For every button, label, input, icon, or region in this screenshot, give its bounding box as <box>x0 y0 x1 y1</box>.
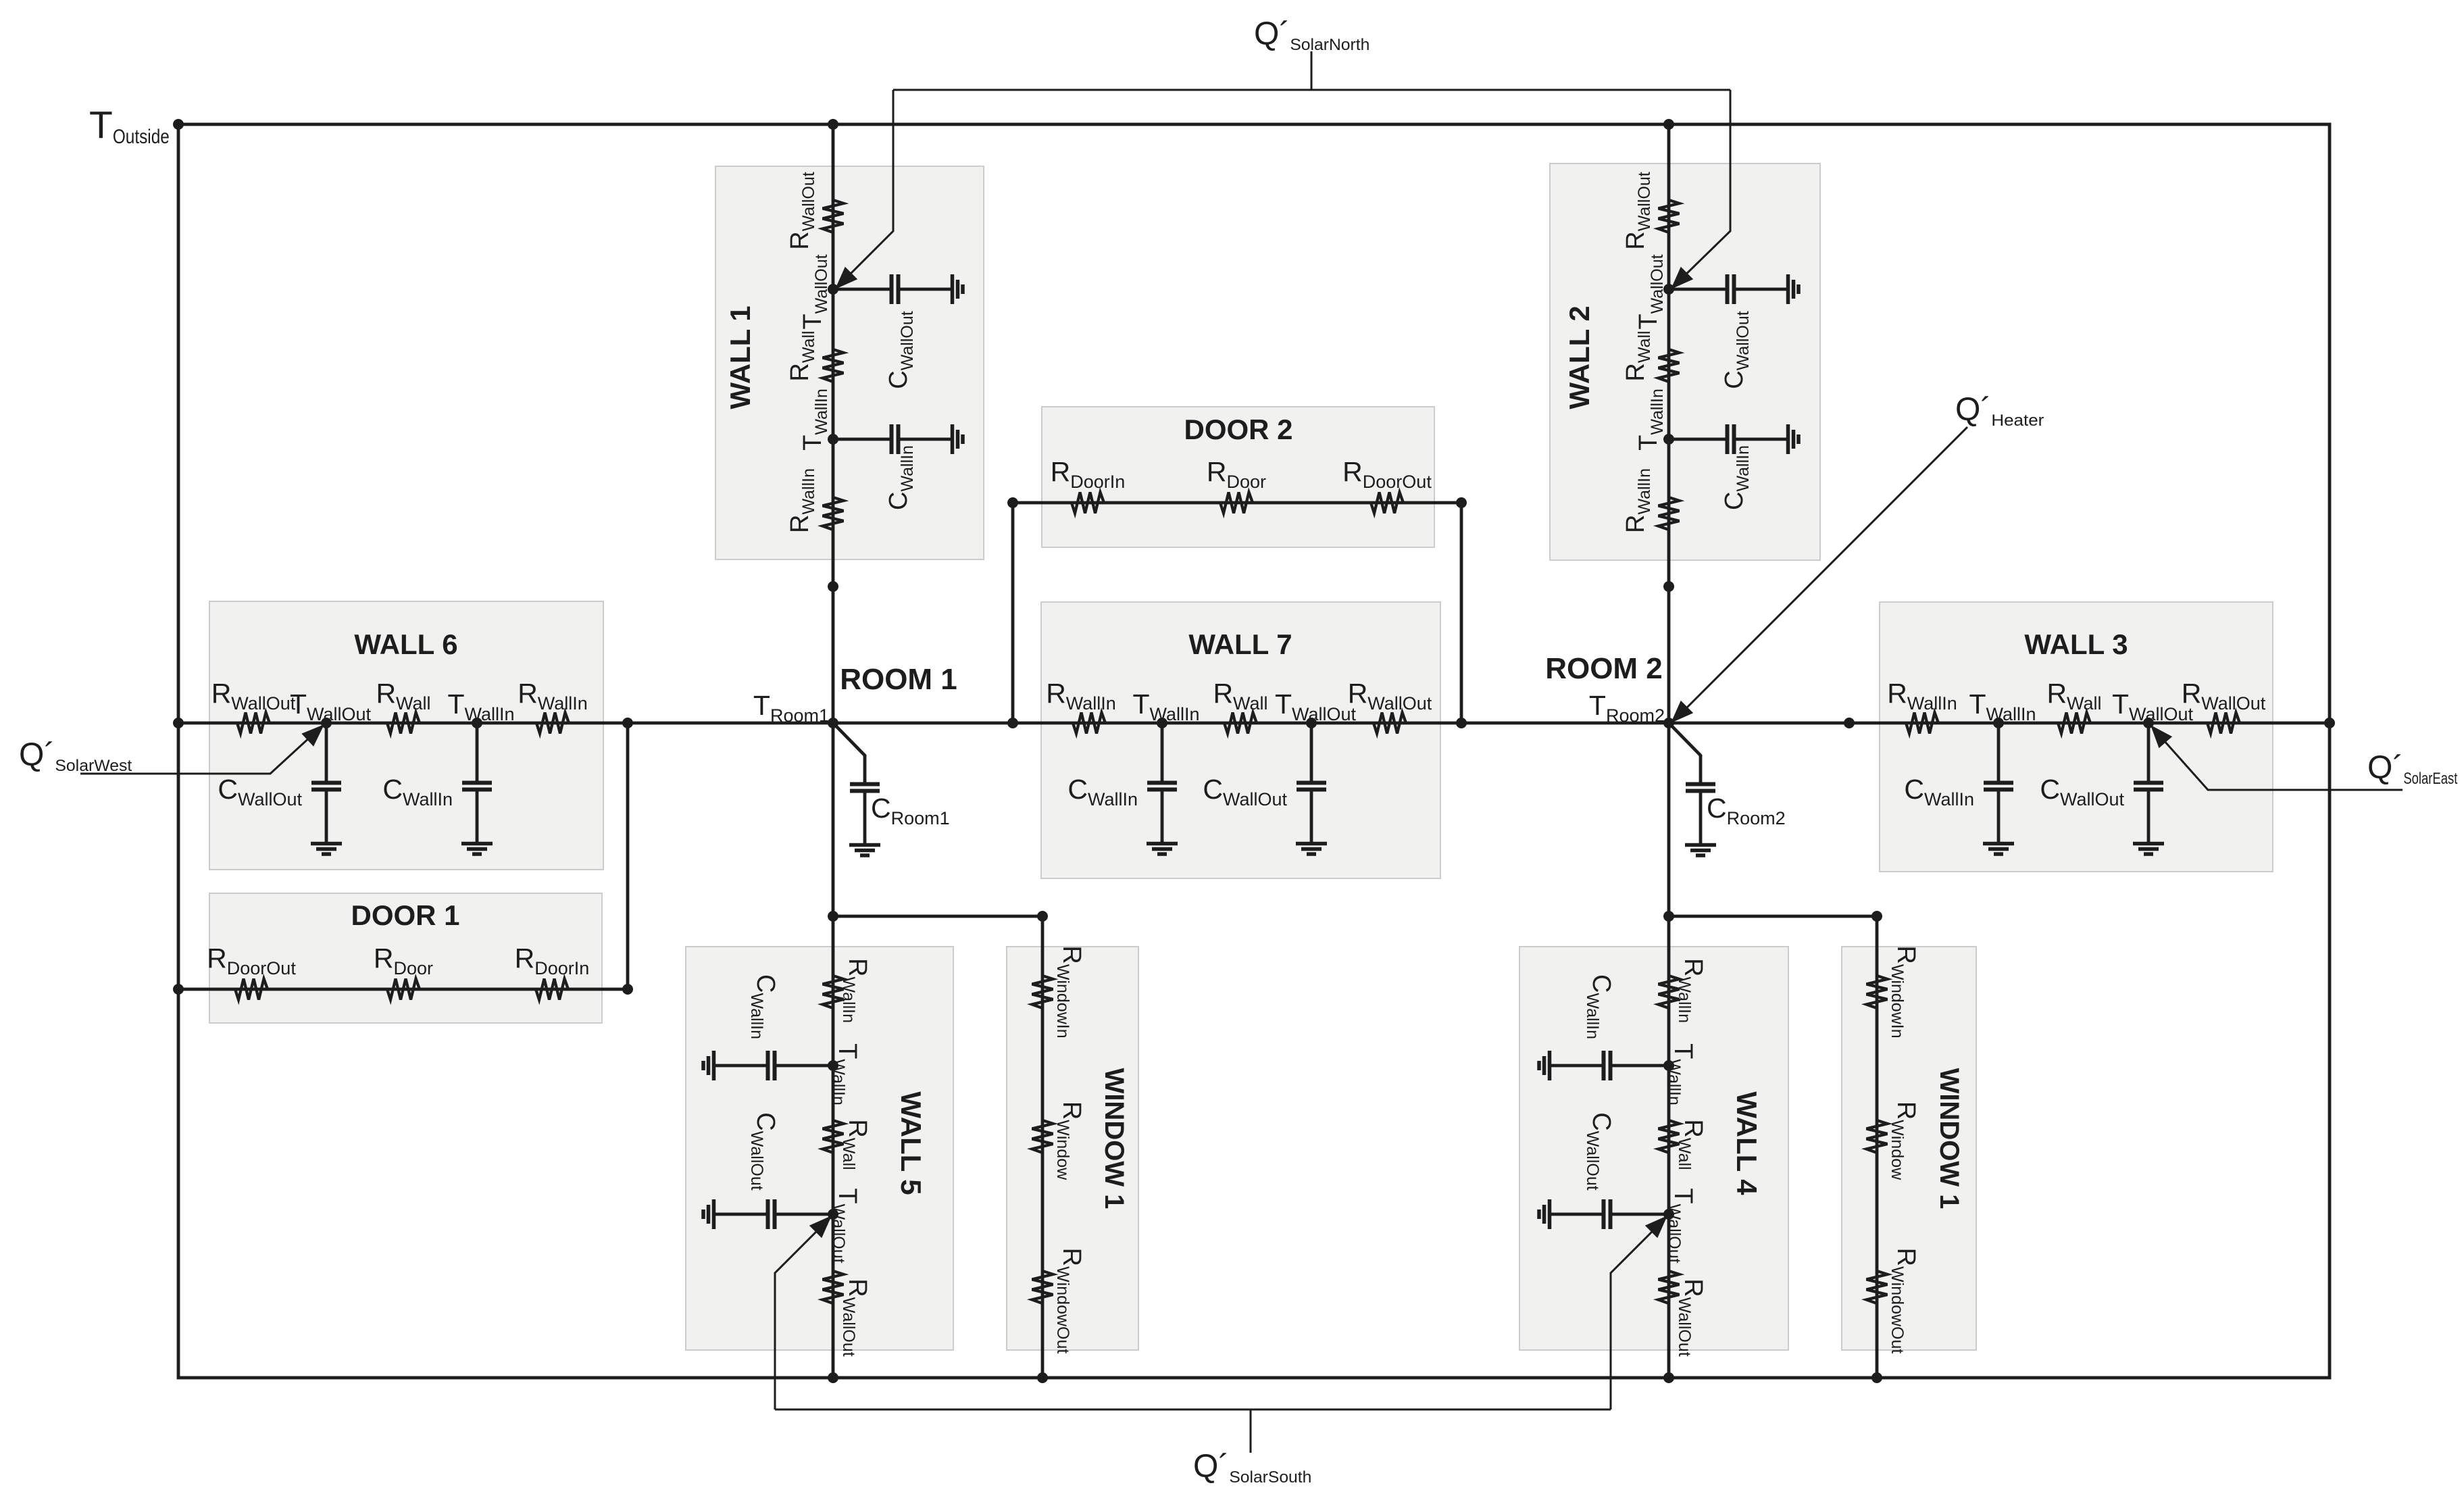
resistor R_DoorIn (Door2) <box>1072 493 1104 514</box>
resistor R_Wall (Wall5) <box>823 1120 844 1153</box>
svg-text:WINDOW 1: WINDOW 1 <box>1099 1068 1129 1209</box>
node junction Door1 right end <box>622 984 633 995</box>
box DOOR 2 <box>1042 407 1434 547</box>
svg-text:DOOR 2: DOOR 2 <box>1184 414 1292 445</box>
box WALL 4 <box>1519 947 1788 1350</box>
capacitor C_WallOut (Wall2) with ground <box>1669 288 1726 291</box>
svg-text:DOOR 1: DOOR 1 <box>351 899 459 931</box>
svg-text:WALL 3: WALL 3 <box>2024 628 2128 660</box>
resistor R_WallOut (Wall2) <box>1659 200 1680 232</box>
wire: Door2 loop <box>1013 503 1461 723</box>
capacitor C_WallIn (Wall5) with ground <box>776 1064 833 1068</box>
wire: window link right <box>1669 916 1877 919</box>
box DOOR 1 <box>209 893 602 1023</box>
node junction Window1-left bottom rail <box>1037 1372 1048 1383</box>
svg-text:WALL 7: WALL 7 <box>1188 628 1292 660</box>
arrow: Q_SolarSouth into T_WallOut Wall4 <box>1645 1216 1667 1238</box>
node T_WallIn (Wall1) <box>828 434 838 445</box>
node dot on top rail at Wall1 <box>828 119 838 130</box>
box WALL 2 <box>1550 164 1820 560</box>
capacitor C_WallIn (Wall4) with ground <box>1612 1064 1669 1068</box>
capacitor C_WallOut (Wall6) with ground <box>325 723 328 781</box>
wire: Q_SolarSouth label stub <box>1250 1409 1252 1453</box>
resistor R_Wall (Wall6) <box>387 713 420 734</box>
capacitor C_WallIn (Wall7) with ground <box>1161 723 1164 781</box>
node T_WallOut (Wall7) <box>1306 718 1317 728</box>
box WINDOW 1 left <box>1007 947 1138 1350</box>
svg-text:WALL 2: WALL 2 <box>1563 305 1595 409</box>
node T_WallIn (Wall6) <box>472 718 482 728</box>
node T_WallIn (Wall3) <box>1993 718 2004 728</box>
resistor R_WallOut (Wall4) <box>1659 1271 1680 1303</box>
node T_WallOut (Wall3) <box>2143 718 2154 728</box>
resistor R_WallOut (Wall5) <box>823 1271 844 1303</box>
wire: Q_SolarSouth riser to Wall5 <box>775 1218 830 1409</box>
svg-text:WINDOW 1: WINDOW 1 <box>1934 1068 1964 1209</box>
node: top-left corner junction <box>173 119 184 130</box>
box WALL 1 <box>715 166 984 559</box>
node T_WallOut (Wall4) <box>1663 1209 1674 1220</box>
node T_WallOut (Wall5) <box>828 1209 838 1220</box>
wire: Q_SolarNorth drop to Wall2 <box>1678 90 1730 282</box>
resistor R_WallIn (Wall1) <box>823 497 844 530</box>
box WALL 5 <box>686 947 953 1350</box>
resistor R_WallIn (Wall7) <box>1073 713 1105 734</box>
resistor R_WindowOut (Window1 left) <box>1032 1271 1053 1303</box>
node T_Room2 <box>1663 718 1674 728</box>
node T_WallIn (Wall7) <box>1157 718 1167 728</box>
resistor R_Door (Door2) <box>1220 493 1253 514</box>
node junction window link right on column <box>1663 911 1674 922</box>
svg-text:WALL 4: WALL 4 <box>1731 1091 1763 1195</box>
wire: Room1 column (T_Room1 to bottom rail) <box>832 723 835 1378</box>
box WINDOW 1 right <box>1842 947 1976 1350</box>
resistor R_Window (Window1 right) <box>1867 1120 1888 1153</box>
node junction below Wall1 box <box>828 581 838 592</box>
node junction window link right corner <box>1871 911 1882 922</box>
svg-text:ROOM 1: ROOM 1 <box>840 663 957 696</box>
arrow: Q_SolarNorth into T_WallOut Wall1 <box>835 267 857 289</box>
node junction rail / right border <box>2324 718 2335 728</box>
resistor R_Wall (Wall1) <box>823 349 844 382</box>
resistor R_DoorOut (Door2) <box>1371 493 1403 514</box>
node junction Door2 left on rail <box>1007 718 1018 728</box>
node junction window link left corner <box>1037 911 1048 922</box>
svg-text:WALL 1: WALL 1 <box>724 305 756 409</box>
resistor R_WallOut (Wall6) <box>237 713 270 734</box>
capacitor C_WallIn (Wall1) with ground <box>833 438 890 441</box>
svg-text:WALL 6: WALL 6 <box>354 628 457 660</box>
resistor R_Door (Door1) <box>387 979 420 1000</box>
arrow: Q_SolarWest into T_WallOut Wall6 <box>301 724 324 747</box>
wire: Q_SolarNorth label stub <box>1311 51 1313 90</box>
arrow: Q_SolarEast into T_WallOut Wall3 <box>2151 725 2172 748</box>
resistor R_Wall (Wall4) <box>1659 1120 1680 1153</box>
node junction window link left on column <box>828 911 838 922</box>
svg-text:WALL 5: WALL 5 <box>895 1091 927 1195</box>
resistor R_WallIn (Wall5) <box>823 976 844 1008</box>
wire: Wall2 vertical branch (T_Outside to T_Room2) <box>1667 124 1671 723</box>
capacitor C_WallIn (Wall2) with ground <box>1669 438 1726 441</box>
svg-text:ROOM 2: ROOM 2 <box>1545 652 1663 685</box>
box WALL 6 <box>209 601 603 870</box>
resistor R_WindowIn (Window1 right) <box>1867 976 1888 1008</box>
node junction Wall4 bottom rail <box>1663 1372 1674 1383</box>
box WALL 3 <box>1880 602 2273 872</box>
wire: Room2 column (T_Room2 to bottom rail) <box>1667 723 1671 1378</box>
wire: Door1 chain <box>178 988 628 991</box>
resistor R_WallOut (Wall1) <box>823 200 844 232</box>
node T_WallOut (Wall6) <box>321 718 332 728</box>
resistor R_WallIn (Wall2) <box>1659 497 1680 530</box>
capacitor C_WallOut (Wall1) with ground <box>833 288 890 291</box>
outer wire loop (T_Outside net) <box>178 124 2330 1378</box>
wire: Q_SolarEast feed <box>2153 728 2403 790</box>
resistor R_WallIn (Wall3) <box>1906 713 1938 734</box>
resistor R_WallIn (Wall4) <box>1659 976 1680 1008</box>
node junction rail / left border <box>173 718 184 728</box>
resistor R_DoorIn (Door1) <box>536 979 568 1000</box>
node junction rail left of Wall3 <box>1844 718 1855 728</box>
resistor R_Wall (Wall3) <box>2058 713 2090 734</box>
node T_WallOut (Wall2) <box>1663 284 1674 295</box>
node dot on top rail at Wall2 <box>1663 119 1674 130</box>
node junction Door1 / left border <box>173 984 184 995</box>
resistor R_Wall (Wall7) <box>1224 713 1257 734</box>
wire: main indoor rail (Wall6-Room1-Wall7-Room2-Wall3) <box>178 722 2330 725</box>
resistor R_WindowIn (Window1 left) <box>1032 976 1053 1008</box>
capacitor C_Room2 with ground <box>1699 755 1703 782</box>
box WALL 7 <box>1041 602 1440 878</box>
capacitor C_WallOut (Wall7) with ground <box>1310 723 1313 781</box>
capacitor C_WallOut (Wall3) with ground <box>2147 723 2151 781</box>
resistor R_WallOut (Wall7) <box>1374 713 1406 734</box>
node T_Room1 <box>828 718 838 728</box>
node T_WallOut (Wall1) <box>828 284 838 295</box>
node T_WallIn (Wall4) <box>1663 1060 1674 1071</box>
node junction Wall5 bottom rail <box>828 1372 838 1383</box>
capacitor C_Room1 with ground <box>863 755 867 782</box>
arrow: Q_Heater into T_Room2 <box>1671 701 1693 723</box>
resistor R_DoorOut (Door1) <box>235 979 268 1000</box>
resistor R_WallIn (Wall6) <box>536 713 569 734</box>
wire: Q_SolarNorth bus <box>893 89 1730 91</box>
wire: Q_SolarSouth riser to Wall4 <box>1611 1218 1666 1409</box>
wire: Door1-to-rail link <box>626 723 630 989</box>
node junction below Wall2 box <box>1663 581 1674 592</box>
arrow: Q_SolarSouth into T_WallOut Wall5 <box>809 1216 832 1238</box>
wire: C_Room1 jog <box>833 723 865 757</box>
wire: Q_Heater feed <box>1673 427 1967 722</box>
resistor R_WallOut (Wall3) <box>2207 713 2240 734</box>
wire: Q_SolarSouth bus <box>775 1409 1611 1411</box>
resistor R_Window (Window1 left) <box>1032 1120 1053 1153</box>
wire: Window1-right column <box>1876 916 1879 1378</box>
wire: Q_SolarWest feed <box>80 728 320 774</box>
wire: C_Room2 jog <box>1669 723 1701 757</box>
node junction Wall6/Door1 link <box>622 718 633 728</box>
resistor R_WindowOut (Window1 right) <box>1867 1271 1888 1303</box>
node junction Window1-right bottom rail <box>1871 1372 1882 1383</box>
capacitor C_WallOut (Wall4) with ground <box>1612 1213 1669 1216</box>
wire: Q_SolarNorth drop to Wall1 <box>842 90 893 282</box>
capacitor C_WallIn (Wall3) with ground <box>1997 723 2001 781</box>
node T_WallIn (Wall5) <box>828 1060 838 1071</box>
capacitor C_WallOut (Wall5) with ground <box>776 1213 833 1216</box>
capacitor C_WallIn (Wall6) with ground <box>476 723 479 781</box>
resistor R_Wall (Wall2) <box>1659 349 1680 382</box>
wire: Wall1 vertical branch (T_Outside to T_Room1) <box>832 124 835 723</box>
node junction Door2 right top <box>1456 497 1467 508</box>
node junction Door2 left top <box>1007 497 1018 508</box>
node junction Door2 right on rail <box>1456 718 1467 728</box>
arrow: Q_SolarNorth into T_WallOut Wall2 <box>1671 267 1693 289</box>
node T_WallIn (Wall2) <box>1663 434 1674 445</box>
wire: Window1-left column <box>1041 916 1045 1378</box>
wire: window link left <box>833 916 1042 919</box>
